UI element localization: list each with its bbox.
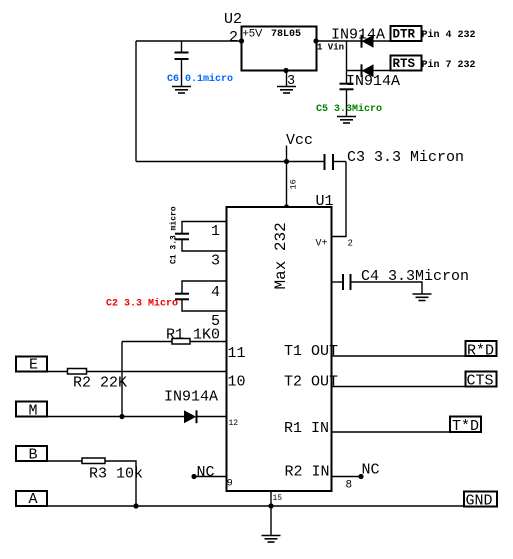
junction dot pin16 — [284, 204, 289, 209]
wire junction vertical to second diode and C5 — [346, 41, 348, 83]
capacitor C6 — [175, 41, 189, 86]
wire T2 OUT to CTS — [332, 386, 466, 388]
svg-text:+5V: +5V — [243, 28, 264, 40]
capacitor C4 — [332, 274, 422, 294]
wire R2 IN NC pin 8 — [332, 476, 361, 478]
pin 15 stub — [270, 491, 272, 506]
svg-text:CTS: CTS — [467, 373, 494, 390]
svg-text:NC: NC — [197, 464, 215, 481]
svg-text:R2 22K: R2 22K — [73, 375, 127, 392]
junction dot M/R1 — [119, 414, 124, 419]
svg-text:15: 15 — [273, 494, 283, 503]
svg-text:Pin 4 232: Pin 4 232 — [422, 29, 476, 41]
svg-text:3: 3 — [211, 253, 220, 270]
capacitor C2 — [175, 294, 227, 311]
connector box E — [16, 357, 47, 372]
svg-text:T*D: T*D — [452, 418, 479, 435]
svg-text:C5 3.3Micro: C5 3.3Micro — [316, 103, 382, 115]
svg-text:78L05: 78L05 — [271, 29, 301, 40]
resistor R1 body — [172, 339, 190, 345]
wire C3 to V+ pin 2 — [332, 162, 346, 237]
wire E to pin10 — [47, 371, 67, 373]
svg-text:C4 3.3Micron: C4 3.3Micron — [361, 268, 469, 285]
wire R1 IN to T*D — [332, 431, 450, 433]
node dot U2 right pin — [313, 38, 318, 43]
svg-text:C6 0.1micro: C6 0.1micro — [167, 73, 233, 85]
svg-text:2: 2 — [229, 29, 238, 46]
svg-text:12: 12 — [229, 419, 239, 428]
connector box M — [16, 402, 47, 417]
ground under pin 15 — [262, 506, 281, 542]
svg-text:IN914A: IN914A — [346, 73, 400, 90]
svg-text:10: 10 — [228, 374, 246, 391]
wire top-left vertical — [135, 41, 137, 162]
svg-text:T1 OUT: T1 OUT — [284, 343, 338, 360]
svg-text:DTR: DTR — [393, 28, 416, 42]
resistor R3 body — [82, 458, 105, 464]
svg-text:A: A — [29, 491, 38, 508]
svg-text:1 Vin: 1 Vin — [317, 43, 344, 53]
svg-text:R3 10k: R3 10k — [89, 466, 143, 483]
svg-text:R*D: R*D — [467, 343, 494, 360]
junction dot Vcc — [284, 159, 289, 164]
wire Vcc horizontal rail — [136, 161, 325, 163]
ground under U2 — [277, 71, 296, 94]
svg-text:Max 232: Max 232 — [272, 222, 290, 289]
wire A to GND box — [47, 505, 464, 507]
diode D1 IN914A — [362, 35, 374, 48]
ground under C6 — [172, 87, 191, 94]
connector box B — [16, 446, 47, 461]
connector box R*D — [466, 341, 497, 356]
svg-text:R1 1K0: R1 1K0 — [166, 327, 220, 344]
connector box A — [16, 491, 47, 506]
pin1 loop wire — [182, 222, 227, 234]
svg-text:Vcc: Vcc — [286, 132, 313, 149]
capacitor C1 — [175, 234, 227, 251]
wire to RTS — [347, 70, 391, 72]
svg-text:IN914A: IN914A — [164, 389, 218, 406]
IC U1 Max232 box — [227, 207, 332, 491]
wire Vcc stub — [286, 146, 288, 208]
capacitor C3 — [325, 154, 347, 170]
wire T1 OUT to R*D — [332, 355, 466, 357]
wire R1 down to M line — [121, 342, 123, 417]
NC dot pin 8 — [358, 474, 363, 479]
svg-text:V+: V+ — [316, 239, 328, 250]
resistor R2 body — [68, 369, 87, 375]
wire B through R3 — [47, 460, 82, 462]
junction dot B/A — [133, 503, 138, 508]
pin4 loop wire — [182, 281, 227, 293]
svg-text:C2 3.3 Micro: C2 3.3 Micro — [106, 298, 178, 310]
connector box RTS — [391, 56, 422, 71]
svg-text:11: 11 — [228, 345, 246, 362]
svg-text:16: 16 — [289, 179, 299, 189]
resistor R1 wire — [122, 341, 172, 343]
wire M to diode — [47, 416, 184, 418]
svg-text:9: 9 — [227, 479, 233, 490]
svg-text:U1: U1 — [316, 193, 334, 210]
connector box CTS — [466, 372, 497, 387]
svg-text:R2 IN: R2 IN — [285, 464, 330, 481]
svg-text:R1 IN: R1 IN — [284, 420, 329, 437]
diode D2 IN914A — [362, 64, 374, 77]
svg-text:NC: NC — [362, 462, 380, 479]
svg-text:GND: GND — [466, 493, 493, 510]
svg-text:B: B — [29, 447, 38, 464]
svg-text:T2 OUT: T2 OUT — [284, 374, 338, 391]
svg-text:Pin 7 232: Pin 7 232 — [422, 59, 476, 71]
svg-text:RTS: RTS — [393, 57, 416, 71]
svg-text:C3 3.3 Micron: C3 3.3 Micron — [347, 149, 464, 166]
node dot U2 left pin — [239, 38, 244, 43]
svg-text:E: E — [29, 357, 38, 374]
svg-text:IN914A: IN914A — [331, 27, 385, 44]
NC wire pin 9 — [194, 476, 227, 478]
connector box GND — [464, 492, 497, 507]
capacitor C5 — [340, 84, 354, 116]
wire top-left horizontal — [136, 40, 242, 42]
diode D3 IN914A — [184, 410, 227, 423]
connector box T*D — [450, 417, 481, 433]
svg-text:M: M — [29, 403, 38, 420]
voltage regulator U2 box — [242, 27, 317, 71]
node dot U2 gnd pin — [283, 68, 288, 73]
svg-text:8: 8 — [346, 480, 353, 492]
svg-text:C1 3.3 micro: C1 3.3 micro — [170, 206, 179, 264]
svg-text:4: 4 — [211, 284, 220, 301]
svg-text:2: 2 — [348, 239, 353, 249]
junction dot pin15/ground — [268, 503, 273, 508]
connector box DTR — [391, 26, 422, 41]
svg-text:U2: U2 — [224, 11, 242, 28]
svg-text:1: 1 — [211, 223, 220, 240]
ground under C5 — [337, 117, 356, 124]
wire U2 to DTR — [316, 40, 391, 42]
ground under C4 — [413, 294, 432, 301]
NC dot pin 9 — [191, 474, 196, 479]
